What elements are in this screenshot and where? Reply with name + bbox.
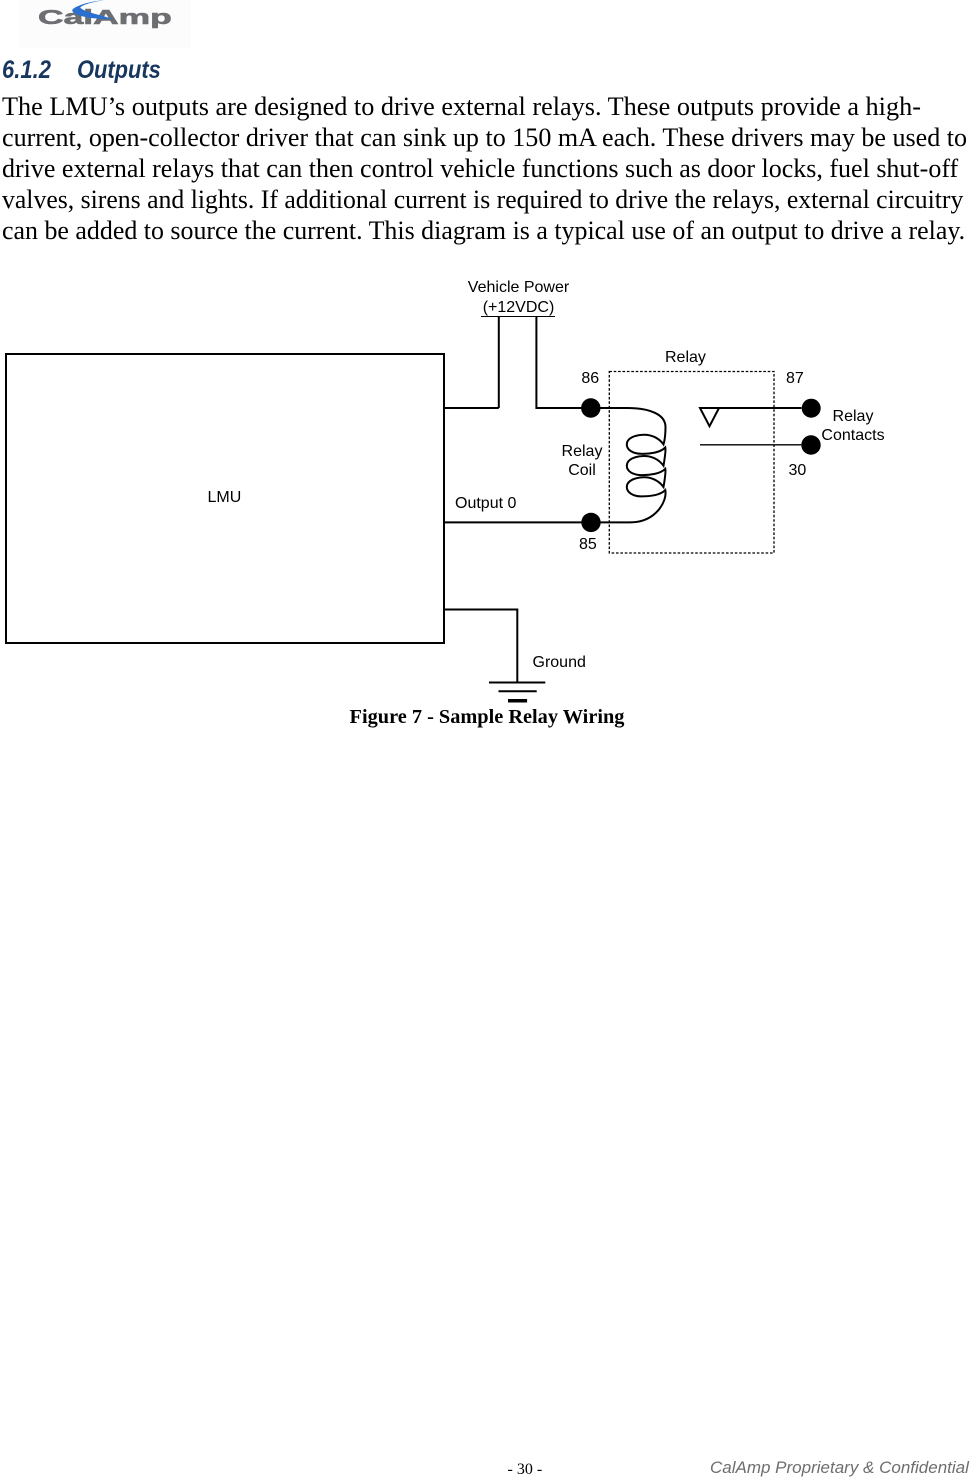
footer page number [508, 1461, 543, 1479]
node 30 [801, 435, 820, 454]
underline under +12VDC [481, 316, 555, 317]
label Relay (box title) [665, 349, 706, 367]
ground bar 2 [499, 690, 537, 692]
wire vehicle power left drop [498, 317, 500, 408]
footer confidential [710, 1458, 969, 1478]
node 86 [581, 398, 600, 417]
logo background [18, 0, 191, 48]
figure caption [0, 706, 974, 729]
wire LMU to power junction [445, 407, 499, 409]
node 87 [802, 399, 821, 418]
wire contact common line [700, 407, 802, 409]
label Relay Coil [551, 442, 613, 480]
wire vehicle power right drop to node 86 [536, 317, 582, 408]
contact triangle [700, 408, 719, 426]
pin label 87 [786, 370, 804, 388]
pin label 86 [581, 370, 599, 388]
heading title Outputs [77, 56, 161, 85]
LMU box [6, 354, 444, 643]
wire output 0 to node 85 [445, 521, 582, 523]
pin label 85 [579, 536, 597, 554]
ground bar 3 [508, 699, 527, 703]
wire ground branch [445, 610, 517, 683]
label Output 0 [455, 495, 516, 513]
wire lower contact line [700, 444, 801, 446]
label Ground [533, 654, 586, 672]
relay dashed box [609, 372, 774, 554]
label Vehicle Power (+12VDC) [439, 278, 599, 318]
label LMU [208, 489, 242, 507]
CalAmp logo text [38, 7, 172, 30]
label Relay Contacts [820, 407, 886, 445]
heading number 6.1.2 [2, 56, 51, 85]
node 85 [581, 513, 600, 532]
relay coil [598, 408, 666, 522]
CalAmp logo swoosh [60, 0, 140, 30]
body paragraph [2, 92, 921, 122]
circuit diagram [0, 0, 974, 780]
pin label 30 [789, 462, 807, 480]
ground bar 1 [489, 682, 545, 684]
